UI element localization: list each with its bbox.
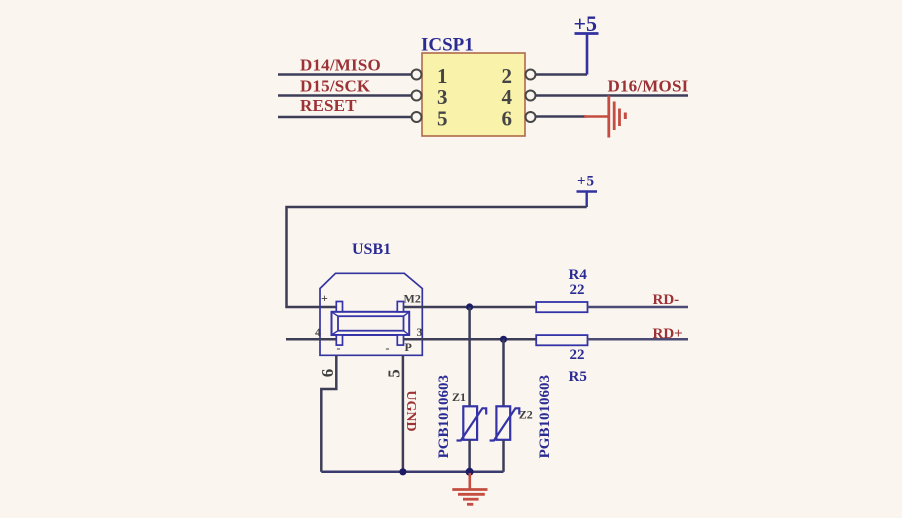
svg-text:USB1: USB1 xyxy=(352,241,391,258)
ground bus wire xyxy=(321,471,503,474)
power +5 (ICSP) bar xyxy=(575,32,599,35)
pin 4 circle xyxy=(526,91,536,101)
svg-text:22: 22 xyxy=(570,347,585,363)
varistor Z2 body xyxy=(496,406,510,440)
svg-text:PGB1010603: PGB1010603 xyxy=(436,375,452,458)
USB1 receptacle corner tick top-right xyxy=(404,312,410,316)
ground (ICSP) bar 1 xyxy=(607,96,610,138)
wire USB pin 4 stub xyxy=(286,338,336,341)
wire pin 3 to resistor R5 xyxy=(404,338,537,341)
power ground (USB) bar 2 xyxy=(458,493,485,496)
connector USB1 body outline xyxy=(320,273,422,355)
wire D14/MISO to pin 1 xyxy=(278,73,412,76)
wire Z1 to ground bus xyxy=(468,440,471,472)
svg-text:5: 5 xyxy=(384,369,403,378)
svg-text:D16/MOSI: D16/MOSI xyxy=(608,77,689,96)
svg-text:RESET: RESET xyxy=(300,96,357,115)
svg-text:R4: R4 xyxy=(569,267,588,283)
wire R5 to RD+ xyxy=(588,338,689,341)
pin 5 circle xyxy=(412,112,422,122)
pin 1 circle xyxy=(412,70,422,80)
varistor Z2 diagonal xyxy=(490,408,520,440)
svg-text:4: 4 xyxy=(315,325,321,339)
resistor R4 body xyxy=(536,302,587,312)
USB1 receptacle graphic outer xyxy=(332,312,410,335)
svg-text:3: 3 xyxy=(417,325,423,339)
power ground (USB) bar 4 xyxy=(467,503,473,506)
varistor Z1 diagonal xyxy=(457,408,487,440)
wire junction to varistor Z2 xyxy=(502,339,505,406)
pin 3 circle xyxy=(412,91,422,101)
power +5 (USB) stem xyxy=(586,192,588,208)
wire M2 to resistor R4 xyxy=(404,306,537,309)
power ground (USB) bar 3 xyxy=(463,498,479,501)
wire RESET to pin 5 xyxy=(278,116,412,119)
USB1 shield pin stub top-right xyxy=(397,302,403,312)
ground (ICSP) bar 3 xyxy=(618,109,621,127)
wire +5 to USB1 plus pin xyxy=(287,207,587,307)
USB1 receptacle corner tick bottom-left xyxy=(332,331,339,335)
svg-text:5: 5 xyxy=(437,106,448,130)
svg-text:-: - xyxy=(337,341,341,355)
power +5 (USB) bar xyxy=(577,190,598,192)
svg-text:6: 6 xyxy=(318,369,337,378)
svg-text:UGND: UGND xyxy=(403,390,418,431)
svg-text:RD+: RD+ xyxy=(653,326,683,342)
wire pin 4 to D16/MOSI xyxy=(536,94,689,97)
wire USB pin 6 loop to ground bus xyxy=(321,355,336,472)
USB1 receptacle graphic inner xyxy=(338,316,404,331)
power ground (USB) stem xyxy=(468,473,471,489)
svg-text:P: P xyxy=(405,340,412,354)
ground (ICSP) stem xyxy=(584,115,609,118)
USB1 shield pin stub top-left xyxy=(336,302,342,312)
svg-text:+5: +5 xyxy=(577,174,595,190)
wire junction to varistor Z1 xyxy=(468,307,471,406)
junction node pin5 on ground bus xyxy=(399,468,406,475)
svg-text:+: + xyxy=(321,291,328,305)
ground (ICSP) bar 4 xyxy=(624,113,627,120)
svg-text:RD-: RD- xyxy=(653,292,680,308)
svg-text:6: 6 xyxy=(502,106,513,130)
connector ICSP1 body xyxy=(422,53,525,136)
varistor Z1 body xyxy=(463,406,477,440)
wire D15/SCK to pin 3 xyxy=(278,94,412,97)
svg-text:PGB1010603: PGB1010603 xyxy=(537,375,553,458)
svg-text:R5: R5 xyxy=(569,369,587,385)
wire USB pin 5 UGND drop xyxy=(402,355,405,472)
wire pin 2 to +5 xyxy=(536,73,588,76)
svg-text:M2: M2 xyxy=(404,292,421,306)
junction node on RD- net xyxy=(466,303,473,310)
wire Z2 to ground bus xyxy=(502,440,505,472)
power ground (USB) bar 1 xyxy=(452,488,487,491)
wire R4 to RD- xyxy=(588,306,689,309)
USB1 receptacle corner tick bottom-right xyxy=(404,331,410,335)
junction node Z1 on ground bus xyxy=(466,468,474,476)
svg-text:Z1: Z1 xyxy=(452,390,466,404)
USB1 shield pin stub bottom-left xyxy=(336,335,342,345)
svg-text:Z2: Z2 xyxy=(519,407,533,421)
svg-text:+5: +5 xyxy=(574,11,598,36)
junction node on RD+ net xyxy=(500,336,507,343)
svg-text:D14/MISO: D14/MISO xyxy=(300,56,381,75)
svg-text:22: 22 xyxy=(570,282,585,298)
wire pin 6 to ground xyxy=(536,115,587,118)
pin 6 circle xyxy=(526,112,536,122)
svg-text:-: - xyxy=(386,341,390,355)
resistor R5 body xyxy=(536,335,587,345)
pin 2 circle xyxy=(526,70,536,80)
USB1 receptacle corner tick top-left xyxy=(332,312,339,316)
svg-text:D15/SCK: D15/SCK xyxy=(300,77,371,96)
power +5 (ICSP) stem xyxy=(586,34,589,75)
USB1 shield pin stub bottom-right xyxy=(397,335,403,345)
ground (ICSP) bar 2 xyxy=(613,102,616,131)
